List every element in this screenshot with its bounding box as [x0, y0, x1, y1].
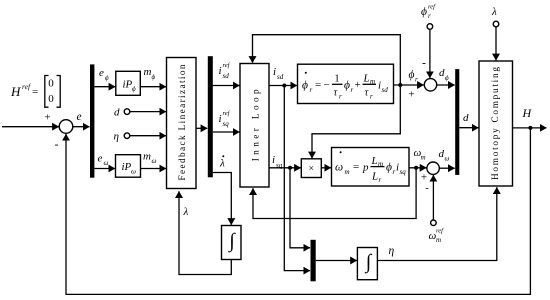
- svg-text:m: m: [144, 66, 152, 78]
- svg-text:ref: ref: [223, 110, 231, 117]
- svg-text:r: r: [379, 176, 382, 184]
- svg-text:+: +: [408, 89, 414, 101]
- summer S2: [424, 79, 436, 91]
- wire H feedback to sum1: [66, 128, 530, 295]
- wire i_sd tap to bus B4: [284, 86, 310, 271]
- node junction i_sd: [282, 84, 286, 88]
- svg-text:=: =: [32, 86, 38, 98]
- svg-text:r: r: [370, 93, 373, 101]
- block Homotopy Computing: [479, 61, 513, 186]
- svg-text:-: -: [422, 56, 426, 70]
- node junction phi_r output: [398, 83, 402, 87]
- svg-text:i: i: [273, 66, 276, 78]
- svg-text:d: d: [114, 107, 120, 119]
- bus bar B2: [208, 56, 213, 177]
- wire I1 to FL lambda: [179, 191, 231, 274]
- block EQ1 phi_r equation: [298, 64, 394, 103]
- wire EQ1 to sum2: [394, 84, 424, 86]
- node i_sq label: [272, 154, 283, 170]
- svg-text:i: i: [219, 65, 222, 77]
- svg-text:λ: λ: [183, 206, 189, 218]
- wire B2 lambdadot to integrator I1: [213, 173, 232, 225]
- svg-text:m: m: [143, 151, 151, 163]
- node junction omega_m: [414, 166, 418, 170]
- svg-text:λ: λ: [219, 158, 225, 170]
- wire sum1 to bus B1: [73, 126, 90, 128]
- wire lambda to Homotopy top: [495, 27, 497, 61]
- svg-text:Inner Loop: Inner Loop: [252, 89, 262, 161]
- svg-text:r: r: [339, 93, 342, 101]
- wire B2 to InnerLoop i_sd_ref: [213, 85, 240, 87]
- wire EQ2 to sum3: [409, 167, 426, 169]
- svg-text:ϕ: ϕ: [152, 73, 156, 81]
- node e_phi label: [99, 67, 109, 82]
- wire eta to FL: [130, 135, 166, 137]
- svg-text:λ: λ: [491, 6, 497, 18]
- wire B3 to Homotopy: [459, 127, 478, 129]
- svg-text:−: −: [324, 79, 330, 91]
- svg-text:+: +: [44, 112, 50, 124]
- svg-text:m: m: [345, 168, 350, 176]
- svg-text:ref: ref: [223, 62, 231, 69]
- wire FL to bus B2: [196, 127, 207, 129]
- wire I2 eta to Homotopy bottom: [377, 187, 496, 260]
- svg-text:r: r: [415, 76, 418, 84]
- svg-text:ϕ: ϕ: [105, 74, 109, 82]
- wire input to sum1: [2, 126, 59, 128]
- block Feedback Linearization: [167, 58, 197, 189]
- block iP_phi: [116, 71, 141, 95]
- wire i_sq tap to bus B4: [290, 168, 310, 248]
- block integrator I1: [222, 226, 242, 260]
- svg-text:η: η: [389, 245, 395, 257]
- svg-text:0: 0: [48, 78, 54, 90]
- node i_sd label: [273, 66, 284, 81]
- svg-text:i: i: [219, 113, 222, 125]
- svg-text:×: ×: [308, 164, 314, 175]
- svg-text:sq: sq: [223, 120, 230, 128]
- svg-text:Feedback Linearization: Feedback Linearization: [178, 64, 188, 180]
- wire sum3 to bus B3: [439, 167, 454, 169]
- svg-text:r: r: [351, 86, 354, 94]
- node d_phi label: [439, 67, 449, 82]
- svg-text:ω: ω: [335, 162, 343, 174]
- svg-text:L: L: [371, 155, 378, 167]
- svg-text:1: 1: [334, 74, 339, 85]
- svg-text:ϕ: ϕ: [445, 74, 449, 82]
- svg-text:-: -: [425, 183, 428, 194]
- node phi_r_ref label: [421, 4, 436, 21]
- wire InnerLoop to multiplier: [269, 167, 301, 169]
- block EQ2 omega_m equation: [332, 148, 410, 187]
- svg-text:ϕ: ϕ: [302, 80, 308, 92]
- svg-text:ref: ref: [428, 4, 436, 11]
- svg-text:r: r: [310, 86, 313, 94]
- node junction i_sq: [288, 166, 292, 170]
- svg-text:ϕ: ϕ: [132, 85, 136, 93]
- svg-text:ω: ω: [445, 155, 450, 163]
- svg-text:p: p: [362, 162, 369, 174]
- svg-text:e: e: [98, 153, 103, 165]
- svg-text:L: L: [363, 73, 370, 85]
- svg-text:=: =: [353, 161, 359, 173]
- bus bar B1: [90, 64, 94, 177]
- node omega_m label: [414, 147, 426, 162]
- wire B1 to iP_phi: [94, 86, 115, 88]
- node omega_m_ref terminal: [431, 220, 437, 226]
- wire InnerLoop to EQ1: [269, 85, 297, 87]
- wire B1 to iP_omega: [94, 168, 115, 170]
- svg-text:ϕ: ϕ: [409, 69, 415, 81]
- wire B4 to integrator I2: [316, 260, 357, 262]
- svg-text:sq: sq: [400, 168, 407, 176]
- wire iP_phi to FL: [140, 86, 166, 88]
- summer S1: [59, 120, 73, 134]
- svg-text:+: +: [421, 172, 427, 184]
- svg-text:sd: sd: [382, 86, 389, 94]
- svg-text:L: L: [371, 171, 378, 183]
- node phi_r label: [409, 69, 419, 84]
- node e_omega label: [98, 153, 109, 168]
- wire iP_omega to FL: [141, 168, 167, 170]
- node omega_m_ref label: [429, 228, 445, 245]
- node i_sq_ref label: [219, 110, 231, 128]
- wire d to FL: [130, 111, 166, 113]
- wire sum2 to bus B3: [437, 84, 455, 86]
- block multiplier X1: [301, 159, 321, 178]
- svg-text:η: η: [114, 131, 119, 143]
- svg-text:ω: ω: [152, 157, 157, 165]
- svg-text:i: i: [272, 154, 275, 166]
- svg-text:+: +: [355, 79, 361, 91]
- node d_omega label: [439, 148, 450, 163]
- wire phi_r tap to multiplier top: [312, 85, 400, 158]
- svg-text:0: 0: [48, 93, 54, 105]
- svg-text:H: H: [522, 106, 533, 120]
- svg-text:e: e: [99, 67, 104, 79]
- svg-text:sd: sd: [277, 73, 284, 81]
- svg-text:r: r: [428, 12, 431, 20]
- node m_phi label: [144, 66, 156, 81]
- wire multiplier to EQ2: [321, 167, 331, 169]
- bus bar B3: [455, 69, 459, 175]
- node junction H: [528, 126, 532, 130]
- node m_omega label: [143, 151, 157, 166]
- svg-text:m: m: [436, 236, 441, 244]
- wire phi_r_ref to sum2: [429, 29, 431, 78]
- svg-text:-: -: [55, 137, 59, 151]
- svg-text:d: d: [463, 112, 469, 124]
- wire H output: [513, 127, 547, 129]
- svg-text:sd: sd: [223, 72, 230, 80]
- node Href matrix label: [10, 76, 60, 108]
- svg-text:m: m: [370, 78, 375, 86]
- svg-text:m: m: [421, 154, 426, 162]
- svg-text:ω: ω: [104, 159, 109, 167]
- svg-text:=: =: [315, 79, 321, 91]
- node lambda terminal: [493, 21, 499, 27]
- bus bar B4: [311, 240, 316, 281]
- block iP_omega: [116, 155, 141, 178]
- svg-text:H: H: [10, 84, 21, 99]
- svg-text:e: e: [77, 111, 82, 123]
- svg-text:ref: ref: [436, 228, 444, 235]
- svg-text:ϕ: ϕ: [344, 80, 350, 92]
- block Inner Loop: [240, 64, 269, 188]
- wire omega_m_ref to sum3: [432, 175, 434, 220]
- node lambdadot label: [219, 155, 225, 169]
- svg-text:ω: ω: [131, 168, 136, 176]
- node phi_r_ref terminal: [427, 24, 433, 30]
- block integrator I2: [357, 248, 377, 280]
- svg-text:ϕ: ϕ: [386, 162, 392, 174]
- node i_sd_ref label: [219, 62, 231, 80]
- wire phi_r feedback to InnerLoop top: [253, 35, 401, 85]
- svg-text:m: m: [378, 160, 383, 168]
- svg-text:ref: ref: [22, 82, 31, 91]
- wire B2 to InnerLoop i_sq_ref: [213, 131, 240, 133]
- summer S3: [427, 162, 439, 174]
- wire omega_m feedback to InnerLoop bottom: [253, 168, 416, 219]
- svg-text:ϕ: ϕ: [421, 6, 427, 18]
